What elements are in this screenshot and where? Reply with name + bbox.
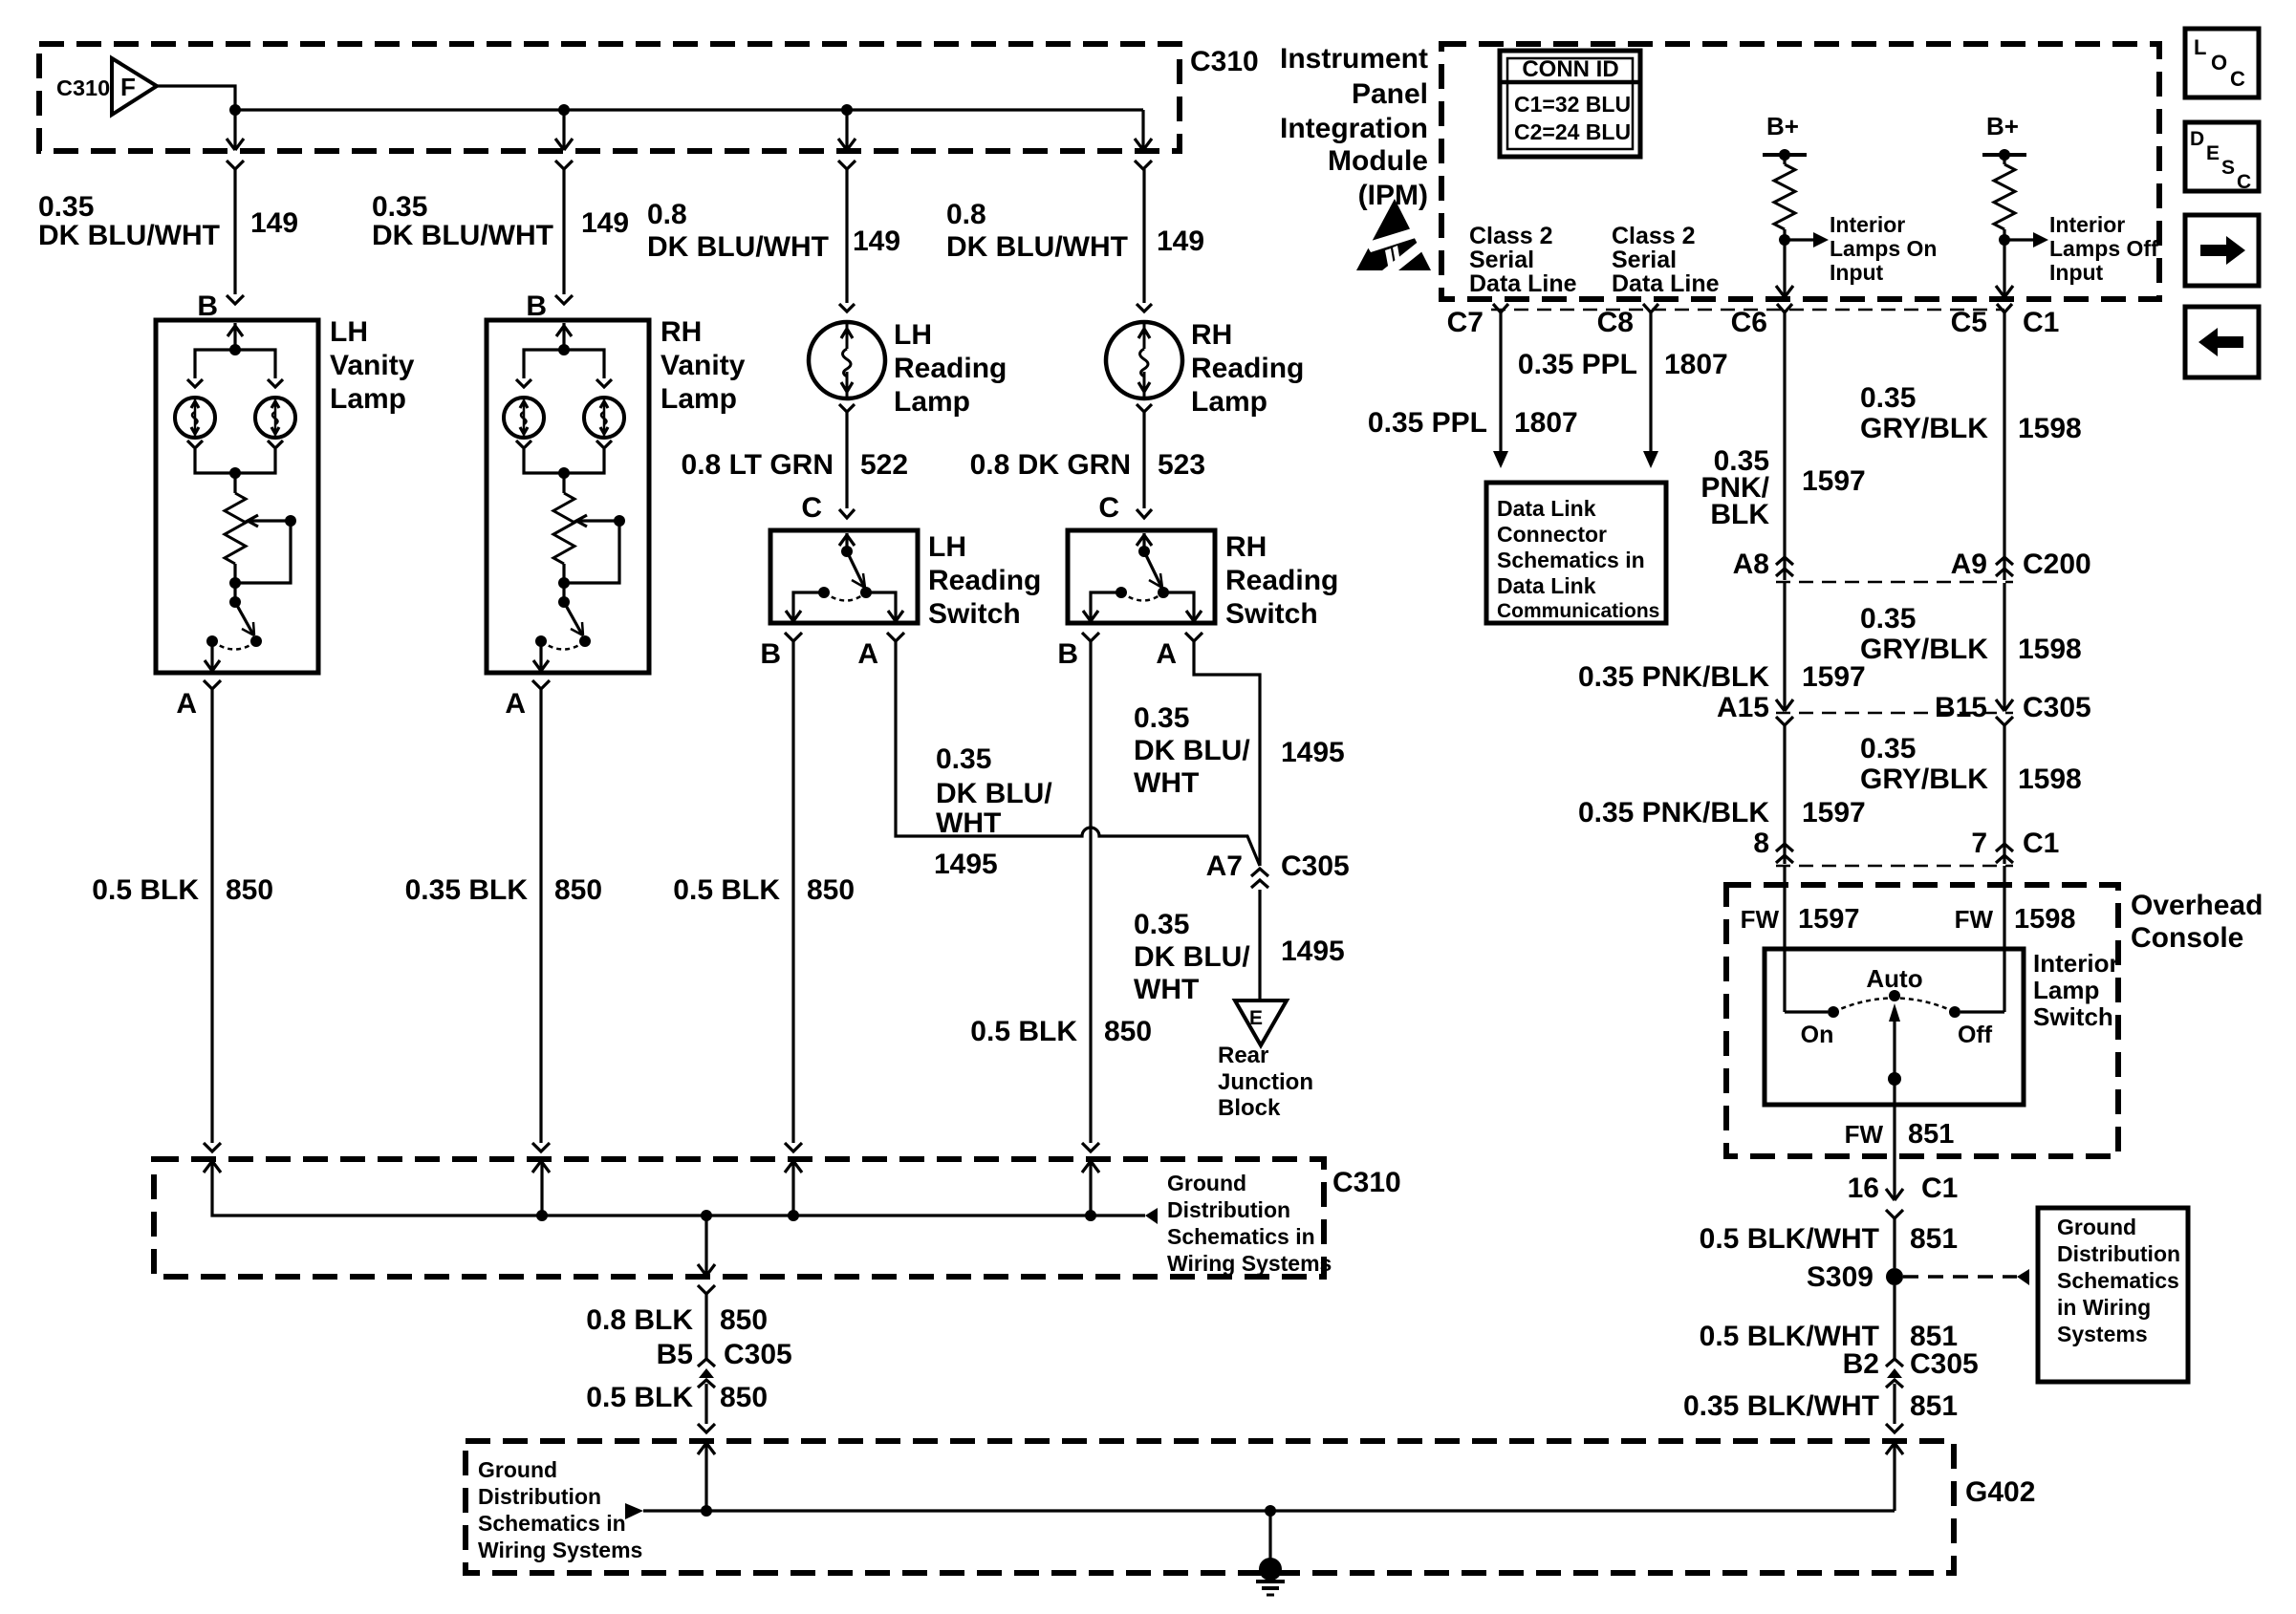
CONN ID table — [1500, 51, 1640, 157]
svg-text:DK BLU/: DK BLU/ — [1134, 941, 1250, 973]
wire: LH reading switch A (ckt 1495 horizontal) — [896, 641, 1260, 866]
RH Reading Switch box — [1068, 530, 1215, 623]
previous arrow button — [2185, 307, 2259, 377]
wire: C8 data line — [1649, 312, 1652, 453]
wire: C6 pink/black 1597 — [1783, 312, 1786, 580]
wire: LH Vanity Lamp B lead — [233, 169, 236, 294]
svg-text:Class 2: Class 2 — [1469, 223, 1553, 249]
svg-text:Integration: Integration — [1280, 113, 1428, 144]
svg-text:Systems: Systems — [2057, 1322, 2148, 1346]
wire: RH Reading Lamp to switch — [1142, 412, 1145, 508]
node: junction at first drop — [229, 104, 241, 116]
svg-text:0.5 BLK: 0.5 BLK — [92, 874, 199, 906]
wire: rheostat wiper (RH Vanity Lamp) — [577, 519, 619, 522]
svg-text:Off: Off — [1958, 1022, 1993, 1048]
wire: bulb outputs join (RH Vanity Lamp) — [524, 449, 604, 473]
connector chevrons below bulbs (RH Vanity Lamp) — [516, 441, 531, 448]
svg-text:850: 850 — [226, 874, 273, 906]
svg-text:Schematics in: Schematics in — [1167, 1224, 1315, 1249]
bulb 1 of LH Vanity Lamp — [175, 398, 215, 438]
svg-text:1807: 1807 — [1514, 407, 1578, 439]
connector below RH Reading Lamp — [1137, 404, 1152, 412]
wire: input tap arrow — [1785, 238, 1813, 241]
svg-text:DK BLU/WHT: DK BLU/WHT — [647, 231, 829, 263]
svg-text:FW: FW — [1741, 905, 1780, 934]
wire: entry stem (RH Reading Switch) — [1142, 533, 1145, 550]
connector chevrons above bulbs (LH Vanity Lamp) — [187, 379, 203, 387]
svg-text:Distribution: Distribution — [2057, 1241, 2180, 1266]
svg-text:C1: C1 — [2023, 307, 2059, 338]
connector above RH Reading Lamp — [1137, 304, 1152, 312]
wire: drop at x=1196 through C310 edge — [1141, 110, 1144, 150]
connector line C305 (thin dashed) — [1776, 712, 2013, 715]
svg-text:0.5 BLK: 0.5 BLK — [970, 1016, 1077, 1047]
ground G402 symbol — [1259, 1558, 1282, 1581]
svg-text:1597: 1597 — [1802, 797, 1866, 829]
svg-text:DK BLU/WHT: DK BLU/WHT — [946, 231, 1128, 263]
svg-text:149: 149 — [853, 226, 900, 257]
DESC button — [2185, 122, 2259, 191]
svg-text:0.5 BLK: 0.5 BLK — [673, 874, 780, 906]
svg-text:A: A — [176, 688, 197, 720]
svg-text:Wiring Systems: Wiring Systems — [478, 1538, 642, 1562]
off-page connector E (triangle) — [1235, 1001, 1287, 1045]
svg-text:Reading: Reading — [1225, 565, 1338, 596]
svg-text:0.35 PNK/BLK: 0.35 PNK/BLK — [1578, 797, 1769, 829]
svg-text:0.35 PPL: 0.35 PPL — [1368, 407, 1487, 439]
svg-text:Ground: Ground — [2057, 1215, 2136, 1239]
connector pin C8 — [1643, 304, 1658, 312]
svg-text:7: 7 — [1971, 828, 1987, 859]
switch pivot (RH Reading Switch) — [1138, 546, 1150, 557]
svg-text:B: B — [526, 291, 547, 322]
svg-text:B5: B5 — [657, 1339, 693, 1370]
wire: 1598 into console — [2003, 866, 2005, 1012]
svg-text:C310: C310 — [1332, 1167, 1401, 1198]
inline connector A8 C200 — [1776, 557, 1793, 565]
svg-text:Schematics in: Schematics in — [478, 1511, 626, 1536]
svg-text:Distribution: Distribution — [1167, 1197, 1290, 1222]
wire: parallel branch tee (RH Vanity Lamp) — [524, 350, 604, 378]
svg-text:0.35: 0.35 — [1134, 702, 1189, 734]
svg-text:C310: C310 — [56, 75, 110, 100]
switch blade (interior lamp switch) — [1889, 1003, 1900, 1022]
svg-text:S: S — [2221, 157, 2235, 179]
svg-text:0.35 PNK/BLK: 0.35 PNK/BLK — [1578, 661, 1769, 693]
wire: S309 to C305 — [1893, 1285, 1895, 1359]
dashed switch arc (LH Reading Switch) — [824, 592, 866, 601]
svg-text:A: A — [1156, 638, 1177, 670]
inline connector A9 C200 — [1996, 557, 2013, 565]
svg-text:A: A — [505, 688, 526, 720]
wire: RH reading switch ground into bus — [1089, 1161, 1092, 1216]
wire: 1597 between C200 and C305 — [1783, 583, 1786, 711]
wire: parallel branch tee (LH Vanity Lamp) — [195, 350, 275, 378]
switch blade (LH Reading Switch) — [847, 551, 864, 587]
node: ground stub junction — [1265, 1505, 1276, 1517]
svg-text:C6: C6 — [1731, 307, 1767, 338]
svg-text:FW: FW — [1955, 905, 1994, 934]
svg-text:Data Link: Data Link — [1497, 573, 1596, 598]
svg-text:RH: RH — [661, 316, 702, 348]
svg-text:149: 149 — [1157, 226, 1204, 257]
wire: Off contact lead — [1960, 1010, 2004, 1013]
reference arrowhead (ground bus) — [1145, 1208, 1158, 1224]
wire: C5 gray/black 1598 — [2003, 312, 2005, 580]
svg-text:B15: B15 — [1935, 692, 1987, 723]
dashed reference from S309 — [1903, 1275, 2017, 1279]
svg-text:Auto: Auto — [1866, 964, 1922, 993]
svg-text:Reading: Reading — [928, 565, 1041, 596]
svg-text:850: 850 — [720, 1304, 768, 1336]
svg-text:523: 523 — [1158, 449, 1205, 481]
svg-text:Overhead: Overhead — [2131, 890, 2263, 921]
switch contacts (LH Reading Switch) — [860, 587, 872, 598]
bulb 1 of RH Vanity Lamp — [504, 398, 544, 438]
svg-text:WHT: WHT — [936, 807, 1001, 839]
svg-text:A15: A15 — [1717, 692, 1769, 723]
RH Reading Lamp bulb — [1106, 322, 1182, 398]
wire: B path (LH Reading Switch) — [793, 592, 824, 621]
connector pin A of RH Vanity Lamp — [532, 680, 550, 689]
svg-text:8: 8 — [1753, 828, 1769, 859]
svg-text:Switch: Switch — [928, 598, 1021, 630]
svg-text:O: O — [2211, 51, 2227, 75]
connector into ground box (RH Vanity Lamp) — [532, 1143, 550, 1151]
Ground Distribution reference box (right) — [2038, 1208, 2188, 1382]
wire: LH reading switch ground into bus — [791, 1161, 794, 1216]
svg-text:Vanity: Vanity — [661, 350, 746, 381]
switch contact (RH Vanity Lamp) — [535, 635, 547, 647]
svg-text:Switch: Switch — [1225, 598, 1318, 630]
rheostat resistor (RH Vanity Lamp) — [553, 493, 574, 564]
wire: ground drop to C305 — [704, 1294, 707, 1359]
node: junction at second drop — [558, 104, 570, 116]
svg-text:Lamp: Lamp — [894, 386, 970, 418]
svg-text:C305: C305 — [724, 1339, 792, 1370]
svg-text:0.8 DK GRN: 0.8 DK GRN — [970, 449, 1131, 481]
connector pin C5 — [1997, 304, 2012, 312]
svg-text:Connector: Connector — [1497, 522, 1607, 547]
svg-text:C310: C310 — [1190, 46, 1259, 77]
connector pin B of RH Vanity Lamp — [555, 295, 573, 304]
wire: input tap arrow — [2004, 238, 2033, 241]
svg-text:GRY/BLK: GRY/BLK — [1860, 634, 1988, 665]
connector pin B of LH Vanity Lamp — [227, 295, 244, 304]
svg-text:0.8 LT GRN: 0.8 LT GRN — [682, 449, 834, 481]
svg-text:Interior: Interior — [1830, 212, 1905, 237]
resistor (pull resistor) — [1994, 164, 2015, 229]
connector pin C6 — [1777, 304, 1792, 312]
svg-text:RH: RH — [1225, 531, 1267, 563]
svg-text:Lamp: Lamp — [661, 383, 737, 415]
svg-text:0.35 PPL: 0.35 PPL — [1518, 349, 1637, 380]
dashed switch arc (LH Vanity Lamp) — [212, 641, 256, 650]
next arrow button — [2185, 215, 2259, 286]
wire: drop at x=246 through C310 edge — [233, 110, 236, 150]
wire: LH reading switch B to ground box — [791, 641, 794, 1143]
svg-text:1807: 1807 — [1664, 349, 1728, 380]
svg-text:Vanity: Vanity — [330, 350, 415, 381]
svg-text:WHT: WHT — [1134, 974, 1199, 1005]
Instrument Panel Integration Module (IPM) box — [1441, 44, 2159, 299]
svg-text:C2=24 BLU: C2=24 BLU — [1514, 119, 1631, 144]
svg-text:149: 149 — [250, 207, 298, 239]
svg-text:1598: 1598 — [2018, 764, 2082, 795]
svg-text:Communications: Communications — [1497, 600, 1659, 622]
svg-text:0.5 BLK: 0.5 BLK — [586, 1382, 693, 1413]
svg-text:1495: 1495 — [1281, 936, 1345, 967]
svg-text:Ground: Ground — [1167, 1171, 1246, 1195]
svg-text:1598: 1598 — [2014, 904, 2076, 935]
LOC button — [2185, 29, 2259, 97]
wire: feed from F to bus — [157, 86, 235, 110]
connector 16 C1 (console) — [1886, 1189, 1903, 1200]
svg-text:C: C — [2237, 171, 2251, 193]
wire: stem to rheostat (RH Vanity Lamp) — [562, 473, 565, 493]
svg-text:Class 2: Class 2 — [1612, 223, 1696, 249]
svg-text:0.35: 0.35 — [1860, 603, 1916, 635]
svg-text:A9: A9 — [1951, 549, 1987, 580]
wire: exit stem A (RH Vanity Lamp) — [539, 641, 542, 671]
wire: stub to ground point — [1268, 1511, 1271, 1561]
svg-text:C7: C7 — [1447, 307, 1484, 338]
LH Reading Lamp bulb — [809, 322, 885, 398]
ground box G402 — [466, 1441, 1954, 1573]
svg-text:Lamp: Lamp — [1191, 386, 1267, 418]
svg-text:Reading: Reading — [894, 353, 1007, 384]
svg-text:B2: B2 — [1843, 1348, 1879, 1380]
svg-text:DK BLU/WHT: DK BLU/WHT — [38, 220, 220, 251]
wire: 1597 between C305 and C1 — [1783, 725, 1786, 864]
svg-text:C: C — [801, 492, 822, 524]
svg-text:B+: B+ — [1766, 112, 1799, 140]
wire: drop at x=886 through C310 edge — [845, 110, 848, 150]
svg-text:Console: Console — [2131, 922, 2243, 954]
svg-text:0.35: 0.35 — [936, 743, 991, 775]
svg-text:C1: C1 — [1921, 1173, 1958, 1204]
wire: A path (RH Reading Switch) — [1163, 592, 1194, 621]
svg-text:Schematics in: Schematics in — [1497, 548, 1645, 572]
svg-text:Lamps Off: Lamps Off — [2049, 236, 2158, 261]
svg-text:Input: Input — [1830, 260, 1884, 285]
svg-text:BLK: BLK — [1710, 499, 1769, 530]
svg-text:0.35 BLK: 0.35 BLK — [405, 874, 529, 906]
On contact — [1828, 1006, 1839, 1018]
svg-text:E: E — [2206, 142, 2220, 164]
node: blade pole — [1888, 1072, 1901, 1086]
svg-text:0.35: 0.35 — [1860, 382, 1916, 414]
connector into ground box (LH Vanity Lamp) — [204, 1143, 221, 1151]
svg-text:Interior: Interior — [2049, 212, 2125, 237]
connector pin C — [1137, 509, 1152, 518]
wire: entry stem inside LH Vanity Lamp — [233, 323, 236, 350]
svg-text:Schematics: Schematics — [2057, 1268, 2179, 1293]
wire: ground drop inside G402 — [704, 1443, 707, 1511]
svg-text:Module: Module — [1328, 145, 1428, 177]
svg-text:16: 16 — [1848, 1173, 1879, 1204]
svg-text:Lamp: Lamp — [2033, 976, 2099, 1004]
wire: 851 inside G402 to bus — [1893, 1443, 1895, 1511]
svg-text:850: 850 — [554, 874, 602, 906]
resistor (pull resistor) — [1774, 164, 1795, 229]
wire: LH Vanity Lamp ground lead — [210, 689, 213, 1143]
dashed switch arc (interior lamp switch) — [1833, 999, 1955, 1013]
wire: entry stem inside RH Vanity Lamp — [562, 323, 565, 350]
connector pin C — [839, 509, 855, 518]
Off contact — [1949, 1006, 1960, 1018]
wire: RH reading switch A (ckt 1495) — [1194, 641, 1260, 866]
svg-text:1597: 1597 — [1802, 465, 1866, 497]
wire: resistor bottom to switch (RH Vanity Lamp) — [562, 564, 565, 602]
svg-text:Input: Input — [2049, 260, 2104, 285]
svg-text:DK BLU/WHT: DK BLU/WHT — [372, 220, 553, 251]
svg-text:Instrument: Instrument — [1280, 43, 1428, 75]
reference arrowhead (G402 bus) — [625, 1503, 643, 1519]
svg-text:C: C — [1098, 492, 1119, 524]
connector line C200 (thin dashed) — [1776, 581, 2013, 584]
LH Reading Switch box — [770, 530, 918, 623]
connector pin A of LH Vanity Lamp — [204, 680, 221, 689]
svg-text:FW: FW — [1845, 1120, 1884, 1149]
svg-text:850: 850 — [720, 1382, 768, 1413]
svg-text:C305: C305 — [1281, 850, 1350, 882]
wire: entry stem (LH Reading Switch) — [845, 533, 848, 550]
svg-text:1597: 1597 — [1798, 904, 1860, 935]
connector pin C7 — [1493, 304, 1508, 312]
switch pivot (LH Reading Switch) — [841, 546, 853, 557]
svg-text:850: 850 — [1104, 1016, 1152, 1047]
svg-text:0.35: 0.35 — [38, 191, 94, 223]
svg-text:1495: 1495 — [1281, 737, 1345, 768]
switch blade of LH Vanity Lamp — [229, 596, 241, 608]
wire: B path (RH Reading Switch) — [1091, 592, 1121, 621]
ESD sensitive symbol — [1356, 199, 1431, 270]
svg-text:Wiring Systems: Wiring Systems — [1167, 1251, 1332, 1276]
svg-text:Reading: Reading — [1191, 353, 1304, 384]
svg-text:Data Link: Data Link — [1497, 496, 1596, 521]
dashed switch arc (RH Reading Switch) — [1121, 592, 1163, 601]
svg-text:Interior: Interior — [2033, 949, 2119, 978]
switch contact (LH Vanity Lamp) — [206, 635, 218, 647]
svg-text:A7: A7 — [1206, 850, 1243, 882]
wire: A path (LH Reading Switch) — [866, 592, 896, 621]
svg-text:Distribution: Distribution — [478, 1484, 601, 1509]
IPM connector face C1 (thin dashed) — [1491, 309, 2004, 312]
wire: resistor to input — [2003, 229, 2005, 297]
svg-text:B+: B+ — [1986, 112, 2019, 140]
svg-text:GRY/BLK: GRY/BLK — [1860, 764, 1988, 795]
wire: RH vanity ground into bus — [540, 1161, 543, 1216]
bulb 2 of LH Vanity Lamp — [255, 398, 295, 438]
svg-text:851: 851 — [1910, 1223, 1958, 1255]
switch blade (RH Reading Switch) — [1144, 551, 1161, 587]
splice S309 — [1886, 1268, 1903, 1285]
svg-text:A8: A8 — [1733, 549, 1769, 580]
svg-text:0.8: 0.8 — [647, 199, 687, 230]
wire: exit stem A (LH Vanity Lamp) — [210, 641, 213, 671]
ground distribution connector box C310 (bottom) — [154, 1159, 1324, 1277]
svg-text:0.5 BLK/WHT: 0.5 BLK/WHT — [1700, 1223, 1879, 1255]
svg-text:C305: C305 — [2023, 692, 2091, 723]
dashed switch arc (RH Vanity Lamp) — [541, 641, 585, 650]
svg-text:1598: 1598 — [2018, 413, 2082, 444]
wire: resistor to input — [1783, 229, 1786, 297]
svg-text:Switch: Switch — [2033, 1002, 2113, 1031]
inline connector B2 C305 — [1886, 1359, 1903, 1367]
connector pin B (LH Reading Switch) — [785, 633, 802, 641]
svg-text:C5: C5 — [1951, 307, 1987, 338]
svg-text:C8: C8 — [1597, 307, 1634, 338]
Data Link Connector reference box — [1486, 483, 1666, 623]
Auto contact — [1889, 990, 1900, 1001]
svg-text:1495: 1495 — [934, 849, 998, 880]
svg-text:851: 851 — [1910, 1390, 1958, 1422]
svg-text:C200: C200 — [2023, 549, 2091, 580]
connector box C310 (top) — [39, 44, 1180, 151]
svg-text:LH: LH — [928, 531, 966, 563]
svg-text:Data Line: Data Line — [1469, 270, 1577, 297]
svg-text:L: L — [2194, 35, 2206, 59]
svg-text:Panel: Panel — [1352, 78, 1428, 110]
wire: RH Vanity Lamp ground lead — [539, 689, 542, 1143]
wire: 1598 between C200 and C305 — [2003, 583, 2005, 711]
wire: On contact lead — [1785, 1010, 1828, 1013]
wire: rheostat wiper (LH Vanity Lamp) — [249, 519, 291, 522]
svg-text:0.35 BLK/WHT: 0.35 BLK/WHT — [1683, 1390, 1879, 1422]
switch contacts (RH Reading Switch) — [1158, 587, 1169, 598]
svg-text:GRY/BLK: GRY/BLK — [1860, 413, 1988, 444]
wire: ground bus (C310 box) — [212, 1161, 1145, 1216]
wire: 851 to G402 — [1893, 1384, 1895, 1424]
svg-text:LH: LH — [894, 319, 932, 351]
svg-text:S309: S309 — [1807, 1261, 1874, 1293]
svg-text:149: 149 — [581, 207, 629, 239]
svg-text:0.35: 0.35 — [1860, 733, 1916, 764]
connector chevrons above bulbs (RH Vanity Lamp) — [516, 379, 531, 387]
svg-text:B: B — [1057, 638, 1078, 670]
svg-text:850: 850 — [807, 874, 855, 906]
svg-text:CONN ID: CONN ID — [1522, 56, 1618, 82]
wire: 1495 to rear junction block — [1258, 890, 1261, 1001]
wire: RH Reading Lamp feed — [1142, 169, 1145, 303]
svg-text:D: D — [2190, 128, 2204, 150]
wire: combined ground drop — [704, 1216, 707, 1276]
wire: RH Vanity Lamp B lead — [562, 169, 565, 294]
connector chevrons below bulbs (LH Vanity Lamp) — [187, 441, 203, 448]
rheostat resistor (LH Vanity Lamp) — [225, 493, 246, 564]
wire: main bus inside C310 box — [235, 108, 1143, 111]
wire: bulb outputs join (LH Vanity Lamp) — [195, 449, 275, 473]
wire: drop at x=590 through C310 edge — [562, 110, 565, 150]
switch blade of RH Vanity Lamp — [558, 596, 570, 608]
svg-text:Junction: Junction — [1218, 1069, 1313, 1095]
svg-text:RH: RH — [1191, 319, 1232, 351]
wire: ground drop below C305 — [704, 1384, 707, 1424]
connector pin A (LH Reading Switch) — [887, 633, 904, 641]
connector below LH Reading Lamp — [839, 404, 855, 412]
svg-text:On: On — [1801, 1022, 1834, 1048]
off-page connector F (triangle) — [112, 58, 157, 115]
wire: LH Reading Lamp feed — [845, 169, 848, 303]
svg-text:B: B — [197, 291, 218, 322]
svg-text:G402: G402 — [1965, 1476, 2035, 1508]
svg-text:C305: C305 — [1910, 1348, 1979, 1380]
inline connector A7 C305 — [1251, 869, 1268, 876]
connector above LH Reading Lamp — [839, 304, 855, 312]
svg-text:E: E — [1249, 1007, 1263, 1029]
inline connector B5 C305 — [698, 1359, 715, 1367]
